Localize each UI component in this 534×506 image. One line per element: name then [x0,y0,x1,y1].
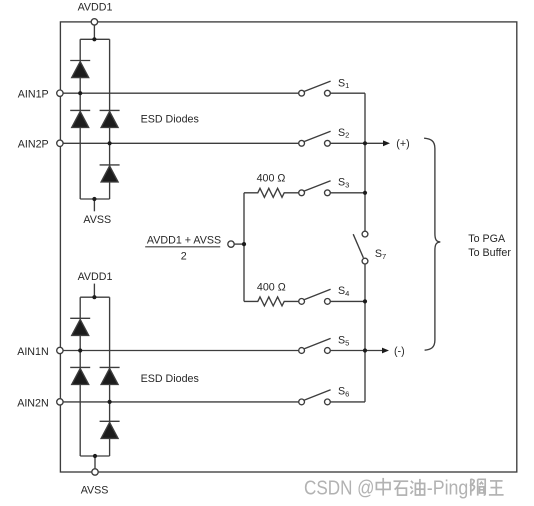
svg-text:To Buffer: To Buffer [468,247,511,259]
wire lower AVDD1 stub [93,284,95,298]
svg-text:ESD Diodes: ESD Diodes [141,373,199,385]
svg-text:(+): (+) [396,138,409,150]
lower ESD sub-box left wire [79,297,81,456]
switch S6 lever [304,390,330,400]
junction dot AIN1N [78,348,82,352]
junction dot lower AVDD1 [92,295,96,299]
junction dot mid reference [242,242,246,246]
switch S5 contacts [299,348,305,354]
svg-text:To PGA: To PGA [468,233,506,245]
junction dot AIN2P [108,141,112,145]
upper ESD sub-box bottom wire [80,198,109,200]
switch S6 contacts [299,399,305,405]
outer box [60,22,516,472]
wire S6 to bus [330,401,365,403]
junction dot bus S2 [363,141,367,145]
lower ESD sub-box bottom wire [80,455,109,457]
arrow line (+) [365,142,383,144]
svg-text:AVSS: AVSS [83,214,111,226]
wire S1 to bus [330,92,365,94]
svg-text:(-): (-) [394,345,405,357]
terminal circle AIN2N [57,399,63,405]
diode D7 [100,367,120,384]
watermark CSDN [304,478,468,500]
junction dot bus S5 [363,348,367,352]
lower ESD sub-box right wire [109,297,111,456]
terminal circle AIN1N [57,347,63,353]
switch S4 lever [304,289,330,299]
wire AVDD1 stub to upper ESD box [93,25,95,39]
wire AIN2P row [63,142,299,144]
switch S5 lever [304,338,330,348]
svg-text:AVDD1 + AVSS: AVDD1 + AVSS [147,234,221,246]
junction dot upper AVDD1 [92,37,96,41]
svg-text:-Ping: -Ping [427,478,469,500]
svg-text:AVSS: AVSS [81,484,109,496]
wire S3 to bus [330,192,365,194]
arrowhead (+) [383,140,390,146]
switch S7 lever [353,234,363,258]
svg-text:S7: S7 [375,248,386,261]
terminal circle AVDD1 [91,19,97,25]
switch S1 contacts [299,90,305,96]
wire bus lower segment [364,264,366,402]
switch S4 contacts [299,299,305,305]
fraction bar [145,246,220,248]
svg-text:AIN2N: AIN2N [17,397,48,409]
svg-text:S6: S6 [338,386,349,399]
diode D6 [70,367,90,384]
watermark glyph yan [471,479,485,496]
svg-text:400 Ω: 400 Ω [257,173,286,185]
wire bus upper segment [364,93,366,231]
junction dot lower AVSS [93,454,97,458]
lower ESD sub-box top wire [80,296,109,298]
junction dot bus S3 [363,191,367,195]
junction dot upper AVSS [92,197,96,201]
wire S5 to bus [330,350,365,352]
svg-text:AIN1P: AIN1P [18,89,49,101]
terminal circle mid reference [228,241,234,247]
wire AIN1N row [63,350,299,352]
wire S4 to bus [330,300,365,302]
wire upper AVSS stub [93,199,95,211]
junction dot AIN2N [108,400,112,404]
switch S2 lever [304,131,330,141]
junction dot bus S4 [363,299,367,303]
switch S2 contacts [299,140,305,146]
arrowhead (-) [382,348,389,354]
svg-text:S1: S1 [338,77,349,90]
switch S3 contacts [299,190,305,196]
diode D2 [70,110,90,127]
wire mid-reference terminal lead [234,243,244,245]
watermark glyph you [410,479,424,495]
svg-text:AVDD1: AVDD1 [78,2,113,14]
svg-text:2: 2 [181,251,187,263]
watermark glyph shi [394,481,409,495]
switch S1 lever [304,81,330,91]
svg-text:AIN1N: AIN1N [17,346,48,358]
wire mid-reference rail [243,193,245,302]
diode D4 [100,165,120,182]
svg-text:ESD Diodes: ESD Diodes [141,114,199,126]
junction dot AIN1P [78,91,82,95]
terminal circle AIN1P [57,90,63,96]
diode D1 [70,61,90,78]
arrow line (-) [365,350,382,352]
terminal circle lower AVSS [92,469,98,475]
wire S2 to bus [330,142,365,144]
diode D8 [100,421,120,438]
svg-text:S5: S5 [338,335,349,348]
svg-text:S3: S3 [338,177,349,190]
svg-text:400 Ω: 400 Ω [257,282,286,294]
brace to PGA/Buffer [424,138,440,350]
svg-text:AIN2P: AIN2P [18,139,49,151]
switch S3 lever [304,181,330,191]
watermark glyph wang [489,481,504,495]
svg-text:S2: S2 [338,127,349,140]
resistor R2 400ohm [244,297,299,306]
diode D5 [70,318,90,335]
terminal circle AIN2P [57,140,63,146]
svg-text:S4: S4 [338,285,349,298]
upper ESD sub-box left wire [79,39,81,199]
wire lower AVSS stub [94,456,96,469]
svg-text:CSDN @: CSDN @ [304,478,375,500]
wire AIN2N row [63,401,299,403]
svg-text:AVDD1: AVDD1 [78,271,113,283]
resistor R1 400ohm [244,188,299,197]
upper ESD sub-box right wire [109,39,111,199]
watermark glyph zhong [376,478,390,496]
wire AIN1P row [63,92,299,94]
switch S7 contacts [362,231,368,237]
upper ESD sub-box top wire [80,38,109,40]
diode D3 [100,110,120,127]
